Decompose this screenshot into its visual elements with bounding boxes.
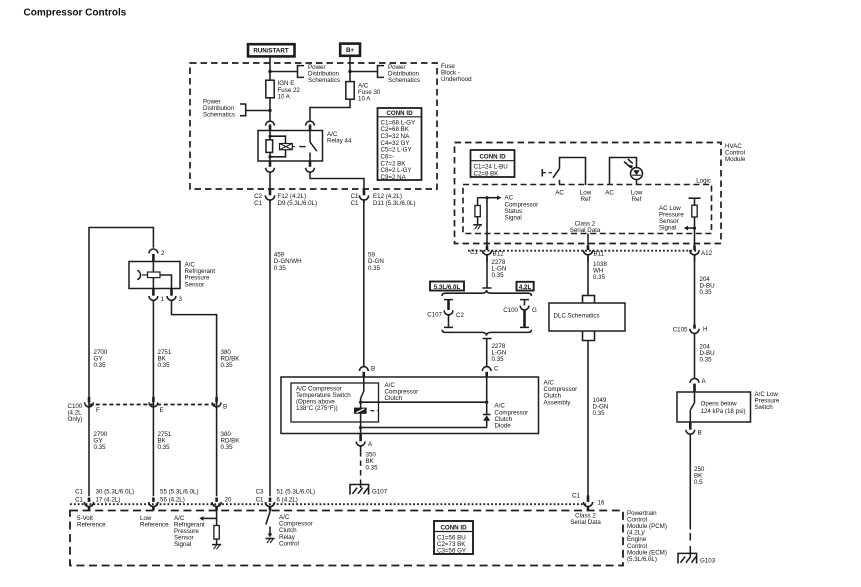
module Powertrain Control Module (dashed box): [70, 510, 667, 566]
node A/C Compressor Clutch Relay Control (PCM driver): [266, 511, 313, 548]
connector C3/C1 pin 51/6 (clutch relay control): [256, 489, 315, 511]
ground G107: [350, 485, 388, 496]
svg-text:C1: C1: [351, 193, 359, 200]
svg-text:5.3L/6.0L: 5.3L/6.0L: [434, 284, 461, 291]
connector pin 2 (pressure sensor): [149, 249, 165, 262]
svg-text:H: H: [703, 326, 707, 333]
svg-text:0.35: 0.35: [700, 289, 713, 296]
sensor element: [152, 262, 154, 289]
clutch coil wire: [486, 377, 488, 402]
svg-text:Compressor Controls: Compressor Controls: [24, 8, 127, 19]
svg-text:Schematics: Schematics: [203, 112, 235, 119]
svg-text:CONN ID: CONN ID: [479, 153, 506, 160]
connector pin 20 (pressure sensor signal): [212, 497, 232, 511]
svg-text:Ref: Ref: [632, 196, 642, 203]
svg-text:Assembly: Assembly: [544, 399, 572, 406]
connector B11: [583, 246, 604, 263]
wire diode return (lower): [361, 427, 487, 429]
svg-text:Control: Control: [279, 540, 299, 547]
svg-text:0.5: 0.5: [694, 479, 703, 486]
svg-text:RUN/START: RUN/START: [253, 48, 289, 55]
svg-text:C1: C1: [572, 493, 580, 500]
node AC Low Pressure Sensor Signal (logic): [659, 198, 701, 248]
svg-text:Sensor: Sensor: [185, 281, 205, 288]
svg-text:3: 3: [179, 296, 183, 303]
svg-text:B+: B+: [346, 47, 354, 54]
LED A/C indicator (HVAC): [605, 158, 643, 204]
wire A/C fuse to relay switch pin: [310, 99, 350, 121]
wire B+ to A/C fuse: [349, 56, 351, 82]
svg-text:C1: C1: [256, 497, 264, 504]
svg-text:C1: C1: [75, 489, 83, 496]
tag 4.2L: [517, 282, 534, 291]
svg-text:1: 1: [161, 296, 165, 303]
svg-text:Schematics: Schematics: [308, 77, 340, 84]
wire 2278 L-GN 0.35 (lower): [492, 343, 507, 363]
wire 1038 WH 0.35: [588, 255, 607, 296]
svg-text:C: C: [494, 366, 499, 373]
ground (logic, status signal): [473, 225, 482, 230]
svg-text:0.35: 0.35: [492, 356, 505, 363]
svg-text:C1: C1: [75, 497, 83, 504]
svg-text:AC: AC: [555, 190, 564, 197]
relay switch contact: [310, 131, 317, 162]
wire 59 D-GN 0.35 (relay switch to clutch): [364, 200, 384, 366]
svg-text:0.35: 0.35: [221, 444, 234, 451]
svg-text:55 (5.3L/6.0L): 55 (5.3L/6.0L): [160, 489, 199, 496]
svg-text:Relay 44: Relay 44: [327, 137, 352, 144]
svg-text:138°C (275°F)): 138°C (275°F)): [296, 405, 338, 412]
temperature switch blade: [359, 377, 364, 428]
label Power Distribution Schematics (top, RUN/START branch): [268, 64, 340, 84]
wire IGN E fuse to relay coil pin: [269, 98, 271, 122]
svg-text:17 (4.2L): 17 (4.2L): [96, 497, 121, 504]
wire 2278 L-GN 0.35 (upper): [483, 255, 507, 288]
connector pin (relay 44 switch, top): [306, 121, 315, 125]
node B+ (battery feed box): [340, 44, 360, 56]
svg-text:0.35: 0.35: [94, 362, 107, 369]
wire 250 BK 0.5: [690, 434, 705, 556]
CONN ID table (HVAC): [471, 150, 515, 177]
relay A/C Relay 44: [258, 131, 352, 162]
connector pin (relay 44 coil, bottom): [269, 161, 272, 167]
svg-text:G: G: [532, 307, 537, 314]
wire 350 BK 0.35: [361, 446, 379, 488]
wire 2278 merge stub: [483, 339, 492, 348]
wire temp switch to clutch coil (upper): [361, 401, 487, 403]
svg-text:C2: C2: [254, 193, 262, 200]
connector C107 C2 (5.3L/6.0L branch): [427, 300, 464, 328]
svg-text:G103: G103: [700, 557, 716, 564]
svg-text:20: 20: [225, 497, 232, 504]
svg-text:C1: C1: [470, 249, 478, 256]
svg-text:6 (4.2L): 6 (4.2L): [277, 497, 298, 504]
svg-text:0.35: 0.35: [593, 410, 606, 417]
assembly A/C Compressor Clutch Assembly (outer box): [281, 377, 577, 434]
svg-text:B11: B11: [594, 251, 605, 258]
temperature switch thermal element: [354, 408, 379, 414]
svg-text:30 (5.3L/6.0L): 30 (5.3L/6.0L): [96, 489, 135, 496]
svg-text:C3: C3: [256, 489, 264, 496]
svg-text:C3=56 GY: C3=56 GY: [437, 548, 466, 555]
svg-text:Serial Data: Serial Data: [570, 519, 601, 526]
svg-text:10 A: 10 A: [358, 96, 371, 103]
connector C100 G (4.2L branch): [503, 300, 537, 328]
svg-text:C100: C100: [503, 307, 518, 314]
connector pin A (low pressure switch): [690, 378, 706, 392]
svg-text:Serial Data: Serial Data: [570, 227, 601, 234]
svg-text:10 A: 10 A: [278, 93, 291, 100]
svg-text:C105: C105: [673, 327, 688, 334]
svg-text:2: 2: [161, 250, 165, 257]
wire RUN/START to IGN E fuse: [269, 56, 271, 80]
connector C1/C1 E12(4.2L) D11(5.3L/6.0L): [351, 190, 416, 207]
svg-text:Switch: Switch: [755, 404, 774, 411]
logic box (HVAC): [463, 177, 712, 233]
svg-text:0.35: 0.35: [94, 444, 107, 451]
connector C1 pin 16 (class 2 serial data): [572, 493, 605, 511]
switch A/C request (HVAC): [542, 158, 591, 204]
svg-text:Reference: Reference: [77, 521, 106, 528]
connector C105 H: [673, 325, 708, 379]
sensor pressure port symbol: [137, 270, 140, 279]
wire 2700 GY 0.35 (upper): [94, 349, 108, 369]
svg-text:16: 16: [598, 500, 605, 507]
svg-text:C1: C1: [254, 200, 262, 207]
svg-text:Signal: Signal: [174, 541, 191, 548]
svg-text:Ref: Ref: [581, 196, 591, 203]
connector pin A (clutch assembly ground lead): [356, 428, 373, 449]
wire 204 D-BU 0.35 (upper): [695, 255, 715, 325]
wire 2751 BK 0.35 (lower): [158, 431, 172, 451]
svg-text:124 kPa (18 psi): 124 kPa (18 psi): [701, 408, 746, 415]
label Low Reference (PCM): [140, 515, 169, 529]
svg-text:0.35: 0.35: [158, 362, 171, 369]
svg-text:Reference: Reference: [140, 521, 169, 528]
label Class 2 Serial Data (HVAC): [570, 221, 601, 249]
fuse IGN E Fuse 22 10 A: [266, 80, 301, 100]
node RUN/START (power feed box): [248, 44, 295, 56]
svg-text:0.35: 0.35: [492, 272, 505, 279]
svg-text:0.35: 0.35: [366, 465, 379, 472]
svg-text:0.35: 0.35: [158, 444, 171, 451]
svg-text:0.35: 0.35: [593, 274, 606, 281]
label 5-Volt Reference (PCM): [77, 515, 106, 529]
engine split brace (bottom): [442, 330, 532, 336]
svg-text:A12: A12: [701, 250, 713, 257]
engine split brace (top): [442, 290, 532, 296]
sensor A/C Refrigerant Pressure Sensor: [129, 262, 215, 289]
svg-text:Signal: Signal: [505, 215, 522, 222]
fuse block - underhood (dashed box): [190, 63, 472, 189]
tag 5.3L/6.0L: [430, 282, 464, 291]
svg-text:C2=8 BK: C2=8 BK: [474, 170, 500, 177]
wire relay coil to C2/C1 connector: [269, 172, 271, 195]
svg-text:4.2L: 4.2L: [519, 284, 532, 291]
switch A/C Low Pressure Switch: [677, 391, 780, 422]
svg-text:C9=2 NA: C9=2 NA: [381, 174, 407, 181]
svg-text:DLC Schematics: DLC Schematics: [554, 313, 600, 320]
box DLC Schematics: [549, 303, 625, 331]
connector C100 pin F: [85, 397, 100, 414]
svg-text:Schematics: Schematics: [388, 77, 420, 84]
svg-text:0.35: 0.35: [700, 357, 713, 364]
connector pin C (clutch assembly): [482, 347, 499, 377]
connector pin 55/56 (low reference): [149, 489, 199, 511]
svg-text:B: B: [223, 404, 227, 411]
fuse A/C Fuse 30 10 A: [346, 82, 381, 103]
svg-text:CONN ID: CONN ID: [440, 524, 467, 531]
svg-text:E: E: [160, 407, 164, 414]
svg-text:Underhood: Underhood: [441, 76, 472, 83]
ground G103: [678, 553, 716, 564]
svg-text:Diode: Diode: [495, 423, 512, 430]
svg-text:F12 (4.2L): F12 (4.2L): [278, 193, 307, 200]
diode A/C Compressor Clutch Diode: [483, 402, 528, 429]
wire 459 D-GN/WH 0.35 (relay coil to PCM): [270, 200, 302, 496]
svg-text:0.35: 0.35: [368, 265, 381, 272]
connector C100 (4.2L only) dashed line: [68, 403, 217, 423]
CONN ID table (PCM): [434, 521, 473, 555]
svg-text:51 (5.3L/6.0L): 51 (5.3L/6.0L): [277, 489, 316, 496]
switch A/C Compressor Temperature Switch (inner box): [291, 383, 379, 422]
svg-text:AC: AC: [605, 190, 614, 197]
DLC schematics link bracket (bottom): [583, 331, 595, 341]
svg-text:Clutch: Clutch: [385, 395, 403, 402]
svg-text:0.35: 0.35: [274, 265, 287, 272]
wire 380 RD/BK 0.35 (upper, pin 3 jog): [172, 300, 241, 496]
label A/C Compressor Clutch: [385, 382, 419, 402]
wire 5-volt reference jog (left column top): [89, 228, 153, 497]
connector C100 pin B: [212, 397, 227, 411]
svg-text:B12: B12: [493, 251, 505, 258]
svg-text:Only): Only): [68, 416, 83, 423]
wire B12 (status signal down): [486, 198, 488, 249]
relay solenoid X-box: [280, 144, 306, 150]
svg-text:F: F: [96, 407, 100, 414]
connector C1 B12: [470, 246, 504, 263]
label Class 2 Serial Data (PCM): [570, 513, 601, 527]
node AC Compressor Status Signal (logic): [478, 195, 539, 222]
svg-text:G107: G107: [372, 489, 388, 496]
connector C100 pin E: [149, 397, 164, 414]
svg-text:B: B: [371, 366, 375, 373]
svg-text:Logic: Logic: [696, 177, 711, 184]
DLC schematics link bracket (top): [583, 296, 595, 304]
svg-text:(5.3L/6.0L): (5.3L/6.0L): [627, 556, 657, 563]
module HVAC Control Module (dashed box): [455, 143, 746, 244]
svg-text:E12 (4.2L): E12 (4.2L): [373, 193, 402, 200]
label Power Distribution Schematics (left, IGN E branch): [203, 99, 272, 119]
svg-text:B: B: [698, 430, 702, 437]
resistor (status signal pull-down): [475, 198, 480, 225]
connector pin B (clutch assembly): [359, 366, 375, 378]
svg-text:Module: Module: [725, 156, 746, 163]
CONN ID table (fuse block): [378, 108, 422, 181]
wire relay switch jog to E12 connector: [310, 172, 364, 195]
svg-text:0.35: 0.35: [221, 362, 234, 369]
svg-text:Opens below: Opens below: [701, 401, 738, 408]
svg-text:C107: C107: [427, 311, 442, 318]
connector A12: [690, 246, 713, 263]
wire 204 D-BU 0.35 (lower): [700, 344, 715, 364]
connector pin (relay 44 coil, top): [266, 121, 275, 125]
wire 1049 D-GN 0.35: [588, 341, 608, 499]
label Power Distribution Schematics (top, B+ branch): [348, 64, 420, 84]
connector pin 3 (pressure sensor): [167, 289, 182, 304]
wire 380 RD/BK 0.35 (lower): [221, 431, 241, 451]
svg-text:C2: C2: [456, 312, 464, 319]
svg-text:56 (4.2L): 56 (4.2L): [160, 497, 185, 504]
svg-text:C1: C1: [351, 200, 359, 207]
connector pin (relay 44 switch, bottom): [309, 161, 312, 167]
HVAC connector row (dotted): [468, 250, 697, 252]
ground (PCM pressure signal): [212, 545, 221, 550]
connector pin 1 (pressure sensor): [149, 289, 165, 304]
svg-text:D9 (5.3L/6.0L): D9 (5.3L/6.0L): [278, 200, 318, 207]
resistor (PCM pressure signal): [214, 518, 219, 544]
connector pin B (low pressure switch): [686, 422, 702, 437]
relay coil branch: [266, 131, 286, 162]
svg-text:D11 (5.3L/6.0L): D11 (5.3L/6.0L): [373, 200, 416, 207]
svg-text:Signal: Signal: [659, 225, 676, 232]
low pressure switch blade: [690, 392, 694, 422]
PCM connector row (dotted): [70, 503, 586, 505]
wire 2700 GY 0.35 (lower): [94, 431, 108, 451]
connector C2/C1 F12(4.2L) D9(5.3L/6.0L): [254, 190, 317, 207]
connector C1/C1 pin 30/17 (5-volt reference): [75, 489, 134, 511]
wire 2751 BK 0.35 (upper): [153, 300, 171, 496]
node A/C Refrigerant Pressure Sensor Signal (PCM): [174, 511, 217, 549]
svg-text:CONN ID: CONN ID: [386, 110, 413, 117]
sensor tap to pin 3: [160, 275, 172, 289]
